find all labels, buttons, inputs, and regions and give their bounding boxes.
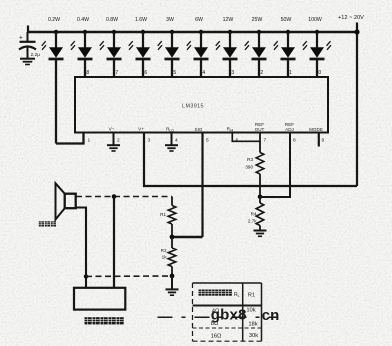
pin 4 RLO stub (171, 133, 173, 145)
pin numbers bottom 1..9 (88, 138, 325, 144)
svg-text:OUT: OUT (255, 127, 265, 132)
svg-text:R4: R4 (251, 212, 257, 217)
svg-text:0.2W: 0.2W (48, 17, 60, 23)
LED D2 (0.4W) (71, 17, 93, 77)
svg-text:2.2μ: 2.2μ (31, 52, 41, 58)
svg-text:18: 18 (84, 70, 90, 76)
node: R3/R4 junction (258, 195, 263, 200)
svg-text:cn: cn (262, 307, 280, 324)
amplifier box (74, 288, 125, 310)
svg-text:10k: 10k (246, 308, 255, 314)
ground (cap) (20, 59, 35, 65)
svg-text:100W: 100W (308, 17, 322, 23)
svg-text:15: 15 (171, 70, 177, 76)
resistor R2 1k (divider bottom) (171, 237, 173, 248)
svg-text:9: 9 (322, 138, 325, 144)
svg-text:4: 4 (175, 138, 178, 144)
LED D3 (0.8W) (100, 17, 122, 77)
svg-text:ADJ: ADJ (285, 127, 294, 132)
svg-text:12W: 12W (223, 17, 234, 23)
svg-text:2.7k: 2.7k (248, 219, 257, 224)
svg-text:16Ω: 16Ω (211, 334, 222, 340)
LED D1 (0.2W) (42, 17, 64, 144)
svg-text:V+: V+ (138, 127, 144, 132)
wire (dashed): return to divider ground (86, 275, 172, 277)
svg-text:7: 7 (264, 138, 267, 144)
wire: speaker return (76, 208, 86, 288)
power rail +12~20V (28, 23, 357, 187)
svg-text:R2: R2 (161, 248, 167, 253)
svg-text:6W: 6W (195, 17, 203, 23)
svg-text:25W: 25W (252, 17, 263, 23)
LED D6 (6W) (187, 17, 209, 77)
svg-text:R1: R1 (160, 212, 166, 217)
LED D10 right-side arrows (327, 41, 332, 50)
table: speaker impedance vs R1 (193, 283, 262, 341)
svg-text:0.4W: 0.4W (77, 17, 89, 23)
svg-text:8: 8 (293, 138, 296, 144)
speaker label (39, 221, 56, 226)
svg-text:3W: 3W (166, 17, 174, 23)
svg-text:gbx8: gbx8 (211, 307, 247, 324)
svg-text:3: 3 (148, 138, 151, 144)
table header speaker impedance RL (199, 290, 232, 296)
pin 9 MODE stub (318, 133, 320, 147)
svg-text:10: 10 (316, 70, 322, 76)
node: amp output tap (112, 194, 117, 199)
svg-text:12: 12 (258, 70, 264, 76)
wire: SIG to divider junction (172, 236, 203, 239)
wire: pin6 RHI link to REF OUT (232, 133, 260, 142)
pin 2 V- stub (113, 133, 115, 145)
svg-text:18k: 18k (248, 322, 257, 328)
LED D10 (100W) (303, 17, 325, 77)
svg-text:1.6W: 1.6W (135, 17, 147, 23)
svg-text:50W: 50W (281, 17, 292, 23)
svg-text:1: 1 (88, 138, 91, 144)
svg-text:SIG: SIG (195, 127, 203, 132)
svg-text:MODE: MODE (309, 127, 323, 132)
LED D8 (25W) (245, 17, 267, 77)
svg-text:30k: 30k (249, 333, 258, 339)
LED D5 (3W) (158, 17, 180, 77)
speaker LS1 (56, 183, 76, 219)
LED D7 (12W) (216, 17, 238, 77)
svg-text:+: + (19, 35, 23, 42)
resistor R1 (divider top) (171, 197, 173, 206)
wire: V+ pin3 to supply rail (144, 133, 357, 187)
ground (R4) (254, 231, 267, 237)
svg-text:+12 ~ 20V: +12 ~ 20V (338, 15, 364, 21)
pin numbers top 18..10 (84, 70, 322, 76)
capacitor C1 2.2u (19, 32, 36, 59)
svg-text:14: 14 (200, 70, 206, 76)
svg-text:11: 11 (287, 70, 292, 76)
svg-text:V−: V− (109, 127, 115, 132)
svg-text:2: 2 (117, 138, 120, 144)
wire (dash-dot) through watermark (158, 316, 278, 318)
LED D9 (50W) (274, 17, 296, 77)
svg-text:1k: 1k (162, 255, 168, 260)
resistor R3 390 (REF OUT) (259, 133, 261, 153)
svg-text:17: 17 (113, 70, 119, 76)
ground (V-) (107, 145, 120, 151)
op-amp IC U1 LM3915 body (75, 77, 328, 133)
pin labels bottom inside IC (109, 122, 323, 133)
amplifier label (85, 317, 124, 324)
node: SIG tap (170, 235, 175, 240)
svg-text:13: 13 (229, 70, 235, 76)
svg-text:16: 16 (142, 70, 148, 76)
svg-text:5: 5 (206, 138, 209, 144)
svg-text:0.8W: 0.8W (106, 17, 118, 23)
node: divider ground junction (170, 274, 175, 279)
wire: REF ADJ pin8 to junction (260, 133, 290, 198)
svg-text:R3: R3 (247, 157, 253, 162)
wire: tap down to amplifier (113, 197, 115, 288)
svg-text:390: 390 (245, 165, 253, 170)
resistor R4 2.7k (259, 197, 261, 203)
svg-text:R1: R1 (248, 293, 255, 299)
wire (dashed): speaker hot to divider R1 (76, 196, 172, 198)
ground (RLO) (165, 145, 178, 151)
ground (divider) (166, 289, 179, 295)
LED D4 (1.6W) (129, 17, 151, 77)
svg-text:LM3915: LM3915 (182, 104, 204, 110)
wire: LED1 return to pin 1 (56, 133, 84, 144)
wire: SIG pin5 down (201, 133, 203, 238)
node: speaker return / gnd link (84, 274, 88, 278)
